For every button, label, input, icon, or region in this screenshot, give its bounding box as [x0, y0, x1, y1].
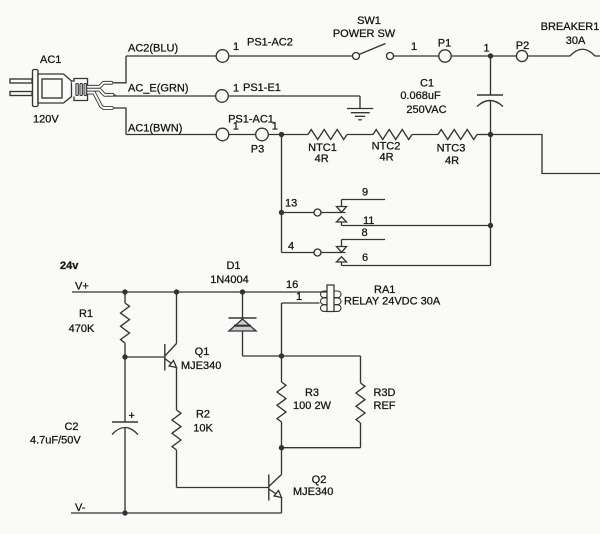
svg-text:POWER SW: POWER SW	[333, 28, 396, 40]
svg-text:P3: P3	[251, 144, 264, 156]
svg-text:RA1: RA1	[374, 284, 395, 296]
svg-text:120V: 120V	[33, 114, 59, 126]
svg-text:1: 1	[233, 41, 239, 53]
svg-text:1: 1	[233, 83, 239, 95]
svg-text:PS1-AC2: PS1-AC2	[247, 37, 293, 49]
svg-text:R3: R3	[305, 387, 319, 399]
svg-text:V-: V-	[75, 502, 86, 514]
svg-text:4R: 4R	[315, 153, 329, 165]
svg-text:250VAC: 250VAC	[406, 104, 446, 116]
svg-text:1: 1	[272, 121, 278, 133]
svg-text:+: +	[129, 410, 135, 422]
svg-text:AC1(BWN): AC1(BWN)	[128, 123, 182, 135]
svg-text:R3D: R3D	[373, 387, 395, 399]
svg-text:C2: C2	[64, 421, 78, 433]
svg-text:4R: 4R	[445, 155, 459, 167]
svg-text:30A: 30A	[566, 35, 586, 47]
svg-text:AC1: AC1	[40, 54, 61, 66]
svg-text:REF: REF	[374, 400, 396, 412]
svg-text:D1: D1	[226, 260, 240, 272]
svg-text:16: 16	[286, 279, 298, 291]
svg-text:1N4004: 1N4004	[210, 274, 249, 286]
svg-text:MJE340: MJE340	[181, 360, 221, 372]
svg-text:1: 1	[484, 43, 490, 55]
svg-text:Q2: Q2	[312, 474, 327, 486]
svg-text:1: 1	[296, 291, 302, 303]
svg-text:Q1: Q1	[195, 346, 210, 358]
svg-text:470K: 470K	[69, 323, 95, 335]
svg-text:MJE340: MJE340	[293, 486, 333, 498]
svg-text:R2: R2	[196, 409, 210, 421]
svg-text:8: 8	[362, 227, 368, 239]
svg-text:4R: 4R	[379, 152, 393, 164]
svg-text:6: 6	[362, 252, 368, 264]
svg-text:100 2W: 100 2W	[293, 400, 332, 412]
svg-text:RELAY 24VDC 30A: RELAY 24VDC 30A	[344, 296, 441, 308]
svg-text:13: 13	[285, 198, 297, 210]
svg-text:1: 1	[233, 121, 239, 133]
svg-text:4: 4	[288, 241, 294, 253]
svg-text:BREAKER1: BREAKER1	[541, 21, 600, 33]
svg-text:9: 9	[362, 187, 368, 199]
svg-text:NTC3: NTC3	[437, 143, 466, 155]
svg-text:AC_E(GRN): AC_E(GRN)	[128, 83, 189, 95]
svg-text:11: 11	[363, 215, 374, 227]
svg-text:SW1: SW1	[357, 15, 381, 27]
svg-text:10K: 10K	[193, 423, 213, 435]
svg-text:1: 1	[411, 41, 417, 53]
svg-text:P1: P1	[438, 38, 451, 50]
svg-text:0.068uF: 0.068uF	[400, 90, 441, 102]
svg-text:C1: C1	[420, 78, 434, 90]
svg-text:AC2(BLU): AC2(BLU)	[128, 43, 178, 55]
svg-text:4.7uF/50V: 4.7uF/50V	[30, 435, 81, 447]
svg-text:24v: 24v	[60, 260, 79, 272]
svg-text:R1: R1	[79, 308, 93, 320]
svg-text:P2: P2	[516, 40, 529, 52]
svg-text:PS1-E1: PS1-E1	[243, 82, 281, 94]
svg-text:V+: V+	[75, 281, 89, 293]
